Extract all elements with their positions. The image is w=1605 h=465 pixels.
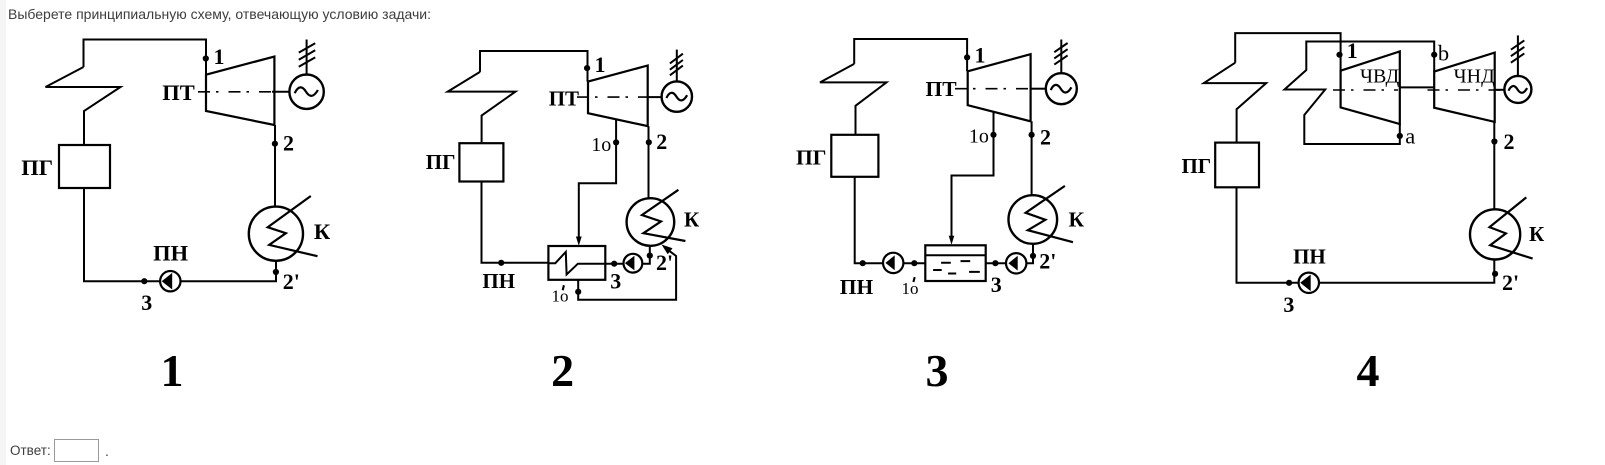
drain arrowhead [662, 245, 673, 255]
svg-text:3: 3 [610, 268, 621, 293]
shaft dash-dot axis [1333, 89, 1398, 91]
heater coil zigzag [548, 252, 605, 275]
svg-text:ПТ: ПТ [926, 77, 958, 101]
ground hatch 3 [1511, 53, 1524, 62]
svg-text:1о: 1о [969, 126, 989, 148]
condenser K circle [1470, 209, 1520, 259]
ground lead above generator [1517, 35, 1519, 76]
node 1 dot [1336, 52, 1342, 58]
extraction arrowhead [949, 236, 955, 245]
node 3 dot [141, 278, 147, 284]
wire: LP exhaust down to condenser [1493, 122, 1495, 209]
pump PN circle [1299, 273, 1319, 293]
ground hatch 2 [1511, 47, 1524, 56]
condenser K circle [249, 207, 303, 261]
condenser K circle [1009, 195, 1058, 244]
shaft solid link to generator [272, 91, 290, 93]
superheater zigzag [820, 64, 887, 135]
node 1 dot [964, 54, 970, 60]
mixer box [925, 245, 985, 281]
svg-text:ПТ: ПТ [162, 80, 195, 105]
extraction arrowhead [576, 237, 582, 246]
svg-text:2': 2' [1502, 270, 1519, 295]
condenser coil zigzag [1026, 186, 1073, 242]
wire: turbine exhaust down to condenser [648, 126, 650, 198]
turbine PT trapezoid [968, 54, 1031, 121]
ground hatch 3 [670, 66, 683, 76]
node 2 dot [1491, 138, 1497, 144]
LP turbine ChND trapezoid [1434, 53, 1495, 122]
node 1o dot [990, 132, 996, 138]
svg-text:ПГ: ПГ [426, 150, 456, 174]
feed pump triangle [885, 255, 894, 270]
node a dot [1397, 133, 1403, 139]
svg-text:2: 2 [1504, 129, 1515, 154]
node 1 dot [584, 65, 590, 71]
svg-text:1о: 1о [591, 134, 611, 156]
label node 1o-prime tick [563, 285, 564, 290]
pump PN circle [160, 271, 180, 291]
condenser K circle [627, 198, 675, 246]
svg-text:1: 1 [1347, 38, 1358, 63]
svg-text:a: a [1405, 123, 1415, 148]
heater drain line to condenser [578, 251, 676, 300]
wire: boiler down, bottom feed line, condensate riser [855, 177, 1033, 263]
ground hatch 1 [299, 43, 315, 52]
svg-text:ПН: ПН [840, 275, 874, 299]
mixer inner top line [925, 254, 985, 256]
wire: extraction from turbine to heater with arrow [579, 119, 616, 237]
ground lead above generator [676, 50, 678, 82]
generator G circle [289, 75, 323, 109]
feed pump circle [883, 253, 903, 273]
node 2' dot [273, 269, 279, 275]
svg-text:2': 2' [283, 269, 300, 294]
svg-text:ПН: ПН [153, 240, 189, 265]
pump PN triangle [162, 273, 173, 290]
node 2' dot [1492, 271, 1498, 277]
mixer water dashes row2 [933, 270, 980, 274]
svg-text:1: 1 [595, 52, 606, 77]
svg-text:ЧВД: ЧВД [1360, 65, 1400, 87]
svg-text:К: К [1529, 222, 1545, 246]
svg-text:3: 3 [141, 290, 152, 315]
condensate pump circle [624, 254, 643, 273]
turbine PT trapezoid [588, 66, 648, 127]
shaft dash-dot axis [198, 91, 275, 93]
svg-text:2: 2 [1040, 124, 1051, 149]
svg-text:1: 1 [214, 44, 225, 69]
node 2' dot [647, 253, 653, 259]
HP turbine ChVD trapezoid [1341, 51, 1400, 124]
svg-text:1: 1 [161, 345, 184, 396]
wire: extraction from turbine to mixer with arrow [952, 112, 994, 236]
node 1o' dot [575, 289, 581, 295]
node 3 dot [1286, 280, 1292, 286]
node 2' dot [1030, 253, 1036, 259]
svg-text:2: 2 [551, 345, 574, 396]
shaft solid link to generator [648, 96, 662, 98]
shaft dash-dot axis right part [1428, 89, 1501, 91]
node 3 dot [992, 260, 998, 266]
svg-text:ПН: ПН [1293, 245, 1326, 269]
shaft solid link between turbines [1400, 86, 1434, 88]
generator G circle [662, 81, 692, 111]
node b dot [1431, 52, 1437, 58]
wire: boiler down to feed line into heater [482, 182, 549, 263]
ground hatch 1 [1054, 43, 1067, 52]
node 3 dot [611, 261, 617, 267]
ground hatch 1 [670, 54, 683, 64]
svg-text:2': 2' [1039, 249, 1056, 274]
svg-text:ПН: ПН [482, 269, 515, 293]
svg-text:3: 3 [991, 272, 1002, 297]
svg-text:ПГ: ПГ [21, 155, 53, 180]
boiler PG box [831, 135, 878, 177]
node PN dot [860, 260, 866, 266]
node 2 dot [272, 141, 278, 147]
wire: boiler riser to turbine inlet (top) [854, 39, 967, 71]
node PN dot [498, 260, 504, 266]
svg-text:К: К [684, 208, 700, 232]
turbine PT trapezoid [206, 57, 274, 126]
node 1o' dot [911, 260, 917, 266]
wire: turbine exhaust down to condenser [274, 125, 276, 207]
svg-text:К: К [1069, 208, 1085, 232]
condensate pump triangle [1008, 256, 1017, 271]
svg-text:1: 1 [975, 42, 986, 67]
reheat loop wire with zigzag [1285, 42, 1435, 145]
generator sine wave [295, 87, 318, 95]
generator G circle [1504, 76, 1531, 103]
svg-text:ПГ: ПГ [796, 146, 826, 170]
mixer water dashes row1 [941, 261, 970, 263]
boiler PG box [59, 145, 110, 188]
svg-text:2: 2 [283, 131, 294, 156]
svg-text:ЧНД: ЧНД [1454, 65, 1495, 87]
svg-text:4: 4 [1357, 345, 1380, 396]
label node 1o-prime tick [913, 277, 914, 282]
svg-text:К: К [314, 219, 331, 244]
wire: boiler riser to HP turbine inlet (top) [1235, 33, 1340, 71]
ground hatch 2 [299, 50, 315, 59]
superheater zigzag [46, 67, 121, 145]
wire: boiler riser to turbine inlet (top) [480, 51, 588, 82]
condensate pump circle [1006, 253, 1026, 273]
svg-text:2: 2 [656, 129, 667, 154]
condensate pump triangle [625, 256, 635, 271]
wire: boiler down, bottom feed line, condensate riser [84, 188, 276, 281]
svg-text:1о: 1о [902, 279, 919, 298]
svg-text:ПГ: ПГ [1181, 154, 1211, 178]
generator sine wave [666, 93, 687, 101]
ground hatch 2 [670, 60, 683, 70]
ground lead above generator [1060, 40, 1062, 74]
ground hatch 3 [299, 57, 315, 66]
wire: boiler riser to turbine inlet (top) [84, 40, 207, 75]
svg-text:ПТ: ПТ [549, 87, 579, 111]
boiler PG box [1215, 143, 1259, 188]
shaft solid link to generator [1031, 88, 1046, 90]
ground hatch 3 [1054, 55, 1067, 64]
condenser coil zigzag [1490, 197, 1533, 258]
node 1 dot [203, 55, 209, 61]
generator sine wave [1509, 86, 1528, 93]
wire: heater to condensate pump to riser [605, 246, 650, 264]
svg-text:3: 3 [926, 345, 949, 396]
svg-text:3: 3 [1283, 292, 1294, 317]
condenser coil zigzag [268, 196, 318, 256]
ground hatch 2 [1054, 49, 1067, 58]
node 1o dot [613, 139, 619, 145]
svg-text:1о: 1о [552, 287, 569, 306]
shaft dash-dot axis [955, 88, 1032, 90]
superheater zigzag [448, 72, 516, 142]
heater box [548, 246, 605, 280]
superheater zigzag [1204, 63, 1266, 143]
generator sine wave [1051, 85, 1072, 93]
node 2 dot [1029, 132, 1035, 138]
pump PN triangle [1300, 275, 1311, 292]
ground lead above generator [306, 40, 308, 75]
shaft solid link to generator [1495, 89, 1505, 91]
generator G circle [1046, 73, 1077, 104]
wire: boiler down, bottom feed line, condensate riser [1237, 187, 1495, 282]
svg-text:2': 2' [656, 250, 673, 275]
shaft dash-dot axis [577, 96, 649, 98]
wire: turbine exhaust down to condenser [1031, 121, 1033, 195]
node 2 dot [646, 139, 652, 145]
boiler PG box [459, 143, 503, 181]
svg-text:b: b [1438, 41, 1449, 66]
ground hatch 1 [1511, 40, 1524, 49]
condenser coil zigzag [642, 190, 685, 241]
